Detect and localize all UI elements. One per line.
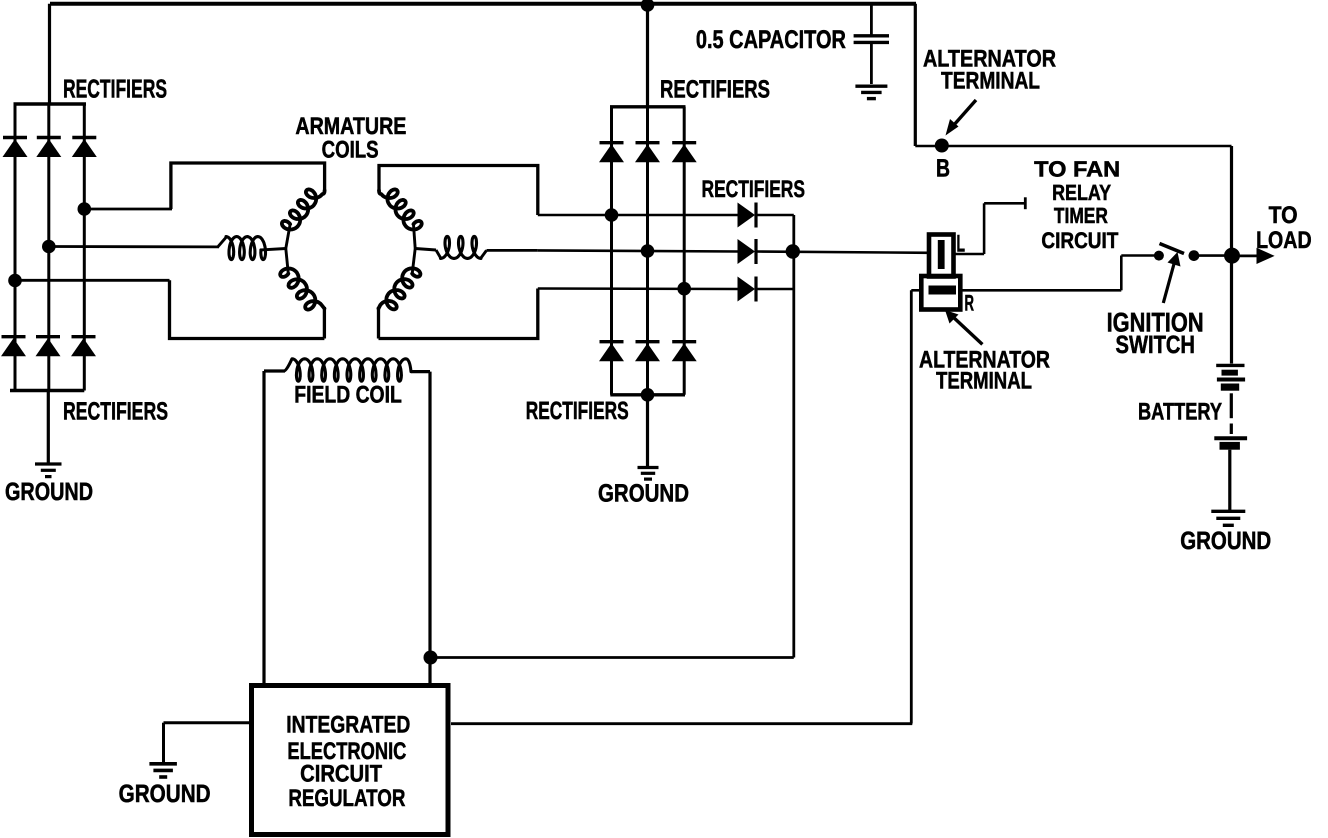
svg-text:RELAY: RELAY xyxy=(1052,180,1111,205)
svg-text:REGULATOR: REGULATOR xyxy=(288,785,405,812)
wire: phase row 2 xyxy=(538,250,739,251)
svg-text:LOAD: LOAD xyxy=(1256,227,1312,254)
wire: top bus drop to left rectifier xyxy=(48,4,51,104)
svg-text:RECTIFIERS: RECTIFIERS xyxy=(63,74,167,104)
wire: diode3 to output bus xyxy=(756,288,794,291)
diode: middle bank bottom 2 xyxy=(635,342,660,362)
node: left phase A tap xyxy=(78,202,92,216)
wire: R drop to regulator xyxy=(910,290,913,723)
wire: right armature bottom loop xyxy=(379,289,538,339)
wire: middle rectifier top bus xyxy=(610,105,686,108)
wire: capacitor lead xyxy=(870,4,873,35)
node: left phase C tap xyxy=(8,274,22,288)
wire: top bus down to B row xyxy=(914,4,917,146)
wire: upper coil tail to wye center xyxy=(413,224,415,248)
svg-text:CIRCUIT: CIRCUIT xyxy=(300,760,382,787)
svg-text:TO: TO xyxy=(1269,202,1298,229)
wire: R terminal left stub xyxy=(911,289,921,292)
svg-text:RECTIFIERS: RECTIFIERS xyxy=(660,76,770,104)
pointer: ALTERNATOR TERMINAL (bottom) -> connector xyxy=(945,310,982,344)
output diode row 2 xyxy=(738,239,757,264)
output diode row 1 xyxy=(738,203,757,228)
ground: battery xyxy=(1211,511,1245,525)
wire: fan-relay stub xyxy=(984,202,1025,205)
svg-text:SWITCH: SWITCH xyxy=(1116,331,1196,359)
diode: middle bank top 2 xyxy=(635,143,660,163)
svg-text:FIELD COIL: FIELD COIL xyxy=(294,382,402,409)
svg-text:RECTIFIERS: RECTIFIERS xyxy=(526,397,629,425)
wire: phase row 1 xyxy=(538,214,739,217)
wire: right armature top loop xyxy=(379,166,538,216)
inductor: FIELD COIL xyxy=(284,359,411,381)
output diode row 3 xyxy=(738,277,757,302)
wire: horizontal coil to wye center xyxy=(261,249,286,250)
wire: output bus down to field tap xyxy=(792,215,795,658)
connector L contact blade xyxy=(938,240,945,269)
wire: field coil right leg xyxy=(428,372,431,683)
wire: phase A tap to armature xyxy=(84,208,172,211)
wire: middle rectifier leg 2 xyxy=(646,107,649,395)
svg-text:COILS: COILS xyxy=(322,137,379,164)
wire: left rectifier top bus xyxy=(14,102,87,105)
wire: left rectifier ground stem xyxy=(47,391,50,464)
wire: left rectifier leg 2 xyxy=(47,104,50,391)
wire: to ignition switch xyxy=(1121,254,1159,257)
diode: middle bank top 1 xyxy=(599,143,624,163)
wire: middle rectifier leg 1 xyxy=(610,107,613,395)
svg-text:R: R xyxy=(965,291,975,316)
regulator box U1: INTEGRATED ELECTRONIC CIRCUIT REGULATOR xyxy=(252,686,449,835)
wire: riser to fan-relay stub xyxy=(983,203,986,254)
wire: upper coil tail to wye center xyxy=(286,224,290,248)
diode: left bank bottom 3 xyxy=(71,337,96,357)
wire: R terminal to ignition riser xyxy=(960,289,1121,292)
wire: L terminal out xyxy=(954,253,985,256)
wire: field coil left link xyxy=(264,369,285,372)
wire: regulator to R-terminal drop xyxy=(451,722,912,725)
wire: phase row 3 xyxy=(538,287,739,290)
svg-text:TERMINAL: TERMINAL xyxy=(941,68,1040,95)
connector R contact blade xyxy=(929,286,957,295)
svg-text:GROUND: GROUND xyxy=(119,780,211,808)
wire: B row to right drop xyxy=(915,145,1231,148)
wire: battery ground stem xyxy=(1228,450,1231,510)
wire: left rectifier leg 1 xyxy=(14,104,17,391)
ground: regulator xyxy=(149,764,177,777)
diode: left bank top 2 xyxy=(36,138,61,158)
diode: left bank bottom 2 xyxy=(36,337,61,357)
svg-text:RECTIFIERS: RECTIFIERS xyxy=(702,176,806,203)
wire: switch to load junction xyxy=(1194,254,1232,257)
wire: middle rectifier bottom bus xyxy=(610,393,685,396)
svg-text:INTEGRATED: INTEGRATED xyxy=(286,712,410,739)
pointer: ALTERNATOR TERMINAL (top) -> node B xyxy=(946,100,977,136)
wire: top bus xyxy=(50,2,916,6)
diode: middle bank top 3 xyxy=(672,143,697,163)
wire: middle rectifier ground stem xyxy=(646,395,649,466)
diode: left bank bottom 1 xyxy=(1,337,26,357)
armature coil: left wye upper phase xyxy=(282,189,325,229)
diode: middle bank bottom 1 xyxy=(599,342,624,362)
ground: left rectifier xyxy=(35,464,62,477)
node: output bus junction xyxy=(786,244,800,258)
wire: left armature bottom loop xyxy=(170,280,325,338)
wire: regulator ground lead xyxy=(164,721,250,724)
wire: regulator ground drop xyxy=(162,723,165,762)
wire: capacitor to ground xyxy=(870,44,873,84)
svg-text:TO FAN: TO FAN xyxy=(1034,157,1120,182)
node: load junction xyxy=(1224,248,1240,264)
capacitor C 0.5uF plates xyxy=(854,36,889,43)
armature coil: right wye horizontal phase xyxy=(441,236,482,258)
node B: alternator output stud xyxy=(935,139,949,153)
node: row3 tap xyxy=(677,282,691,296)
diode: left bank top 1 xyxy=(3,138,28,158)
connector shell: R cavity xyxy=(921,276,960,310)
wire: horizontal coil out to rectifier row xyxy=(487,249,538,252)
wire: main output to terminal L xyxy=(756,252,929,253)
wire: diode1 to output bus xyxy=(756,214,794,217)
svg-text:RECTIFIERS: RECTIFIERS xyxy=(63,398,168,426)
node: left phase B tap xyxy=(42,240,56,254)
wire: wye center to horizontal coil xyxy=(415,249,436,251)
ground: capacitor xyxy=(855,86,887,98)
svg-text:BATTERY: BATTERY xyxy=(1138,399,1222,426)
armature coil: right wye upper phase xyxy=(379,189,422,229)
node: switch left contact xyxy=(1154,251,1164,261)
diode: left bank top 3 xyxy=(72,138,97,158)
ignition switch blade xyxy=(1160,244,1185,254)
svg-text:TERMINAL: TERMINAL xyxy=(936,368,1032,395)
wire: left rectifier leg 3 xyxy=(83,104,86,391)
node: top bus / middle rectifier xyxy=(641,0,655,12)
node: row1 tap xyxy=(605,208,619,222)
wire: left rectifier bottom bus xyxy=(10,389,84,392)
wire: phase B tap to horizontal coil xyxy=(49,245,219,248)
wire: fan-relay stub tick xyxy=(1024,197,1027,209)
svg-text:0.5 CAPACITOR: 0.5 CAPACITOR xyxy=(696,26,846,54)
wire: right drop to battery xyxy=(1230,146,1233,364)
pointer: IGNITION SWITCH label -> blade xyxy=(1163,252,1180,303)
wire: slope into horizontal coil xyxy=(436,250,441,258)
svg-text:GROUND: GROUND xyxy=(1180,527,1271,555)
diode: middle bank bottom 3 xyxy=(672,342,697,362)
armature coil: left wye horizontal phase xyxy=(226,237,266,260)
wire: left armature top loop xyxy=(171,163,325,209)
wire: slope out of horizontal coil xyxy=(481,250,487,258)
wire: lower coil lead xyxy=(323,307,326,339)
wire: field coil right link xyxy=(411,370,430,373)
wire: output bus tap to field node xyxy=(431,656,794,659)
arrow: TO LOAD xyxy=(1232,248,1275,264)
node: switch right contact xyxy=(1189,250,1200,261)
battery BAT1 xyxy=(1214,365,1247,449)
wire: field coil left leg xyxy=(262,371,265,683)
wire: middle rectifier leg 3 xyxy=(683,107,686,395)
wire: lower coil lead xyxy=(377,307,380,339)
armature coil: left wye lower phase xyxy=(286,249,289,274)
wire: slope into horizontal coil xyxy=(218,237,227,247)
node: field/regulator junction xyxy=(424,651,438,665)
svg-text:TIMER: TIMER xyxy=(1054,203,1108,228)
armature coil: right wye lower phase xyxy=(412,249,415,274)
svg-text:B: B xyxy=(936,155,950,183)
node: bottom bus / ground stem xyxy=(641,388,655,402)
node: row2 tap xyxy=(641,244,655,258)
ground: middle rectifier xyxy=(638,468,659,480)
wire: ignition riser xyxy=(1120,256,1123,291)
svg-text:CIRCUIT: CIRCUIT xyxy=(1041,228,1118,253)
connector shell: L cavity xyxy=(929,235,954,277)
wire: top bus drop to middle rectifier xyxy=(646,4,649,107)
svg-text:GROUND: GROUND xyxy=(5,478,93,506)
svg-text:GROUND: GROUND xyxy=(598,480,689,508)
wire: phase C tap to armature bottom xyxy=(15,279,170,282)
